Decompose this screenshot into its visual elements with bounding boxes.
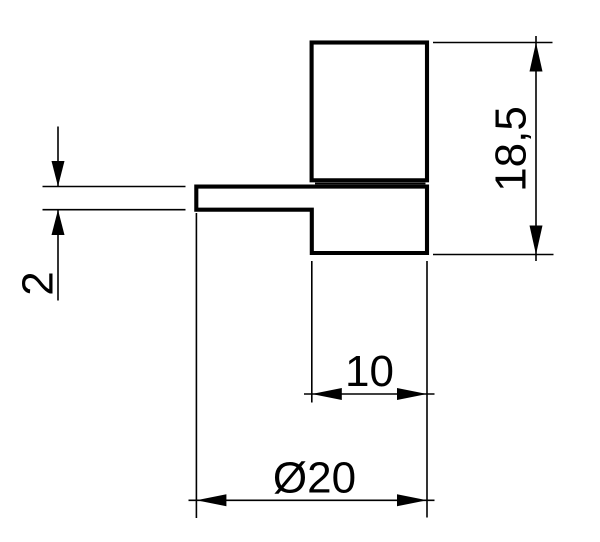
dimension 2: lower dimension line tail [57, 210, 59, 301]
dimension 10: left extension line [311, 261, 313, 403]
part: body with flange profile [196, 187, 427, 253]
svg-text:10: 10 [345, 347, 394, 396]
svg-text:18,5: 18,5 [487, 106, 536, 192]
dimension Ø20: dimension line [189, 499, 435, 501]
dimension 2: down arrowhead [52, 161, 65, 187]
dimension 2: lower extension line [43, 209, 186, 211]
dimension 10: dimension line [304, 393, 435, 395]
dimension 2: upper dimension line tail [57, 127, 59, 187]
dimension 10: right extension line [426, 261, 428, 518]
dimension 2: up arrowhead [52, 210, 65, 235]
svg-text:Ø20: Ø20 [273, 454, 356, 503]
part: cap rectangle outline [312, 43, 427, 181]
dimension 10: left arrowhead [312, 388, 342, 400]
part: seam line under cap [315, 183, 426, 185]
dimension 18,5: bottom extension line [433, 254, 554, 256]
dimension Ø20: left arrowhead [196, 494, 226, 506]
dimension 2: upper extension line [43, 186, 186, 188]
dimension 18,5: lower arrowhead [530, 226, 543, 255]
dimension 18,5: top extension line [433, 42, 553, 44]
dimension Ø20: left extension line [195, 213, 197, 518]
dimension 18,5: vertical dimension line [535, 36, 537, 261]
dimension 18,5: upper arrowhead [530, 43, 543, 72]
dimension 10: right arrowhead [397, 388, 427, 400]
svg-text:2: 2 [14, 271, 63, 295]
dimension Ø20: right arrowhead [397, 494, 427, 506]
